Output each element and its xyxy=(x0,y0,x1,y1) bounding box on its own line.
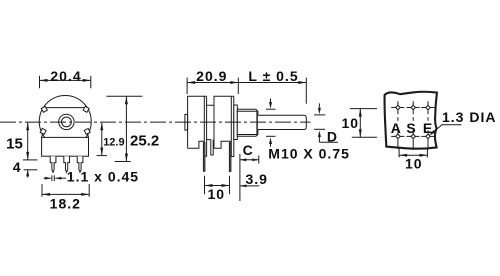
svg-text:D: D xyxy=(327,129,338,145)
body taper left xyxy=(41,134,44,138)
shaft bushing ring (outer) xyxy=(59,114,74,129)
PCB hole column A xyxy=(391,101,404,149)
front view chord line xyxy=(46,107,85,109)
1.3 DIA leader xyxy=(431,125,462,134)
notch upper-right xyxy=(83,106,89,112)
notch lower-right xyxy=(84,128,90,134)
dimension 20.9 extension lines xyxy=(186,78,188,94)
svg-text:15: 15 xyxy=(6,136,23,153)
dimension 4 lower arrow xyxy=(27,170,29,178)
svg-text:10: 10 xyxy=(405,156,423,172)
gang 1 long pin xyxy=(203,142,205,171)
dimension 12.9 vertical xyxy=(101,123,103,156)
dimension 20.9 line xyxy=(187,82,238,84)
svg-text:10: 10 xyxy=(342,115,360,131)
svg-text:1.3 DIA: 1.3 DIA xyxy=(442,109,496,125)
mounting face plate xyxy=(234,105,238,140)
front pin 2 xyxy=(64,156,70,172)
svg-text:C: C xyxy=(243,142,254,158)
dimension 18.2 line xyxy=(42,193,89,195)
dimension 3.9 line xyxy=(240,185,259,187)
svg-text:25.2: 25.2 xyxy=(130,133,159,150)
svg-text:20.9: 20.9 xyxy=(196,68,227,84)
shaft xyxy=(258,115,306,129)
dimension 1.1 x 0.45 arrows and ticks xyxy=(44,177,51,179)
svg-text:18.2: 18.2 xyxy=(50,196,81,212)
svg-text:E: E xyxy=(423,120,433,136)
body taper right xyxy=(87,134,90,138)
svg-text:10: 10 xyxy=(208,186,226,202)
threaded bushing xyxy=(237,109,258,136)
gang 2 long pin xyxy=(229,142,231,172)
thin tab under connector xyxy=(211,140,213,155)
front pin 3 xyxy=(77,156,83,172)
side view gang 2 body xyxy=(214,96,234,148)
horizontal center line through both views xyxy=(0,121,311,123)
PCB hole column S xyxy=(407,101,420,150)
M10 thread callout bottom arrow xyxy=(266,135,276,137)
bushing thread line bottom xyxy=(237,134,257,136)
notch lower-left xyxy=(40,128,46,134)
D callout top arrow xyxy=(318,103,320,107)
svg-text:12.9: 12.9 xyxy=(103,137,124,149)
dimension 10 rows line xyxy=(359,109,361,138)
svg-text:4: 4 xyxy=(13,159,22,175)
dimension 10 patch extension lines xyxy=(398,148,400,158)
dimension 20.4 extension lines xyxy=(39,76,41,89)
dimension 10 patch line xyxy=(399,154,427,156)
side view gang 1 body xyxy=(188,96,207,148)
svg-text:L ± 0.5: L ± 0.5 xyxy=(248,68,298,84)
front body rectangle xyxy=(42,137,89,156)
dimension 3.9 / C shared extension line xyxy=(239,154,241,201)
dimension 25.2 vertical xyxy=(125,96,127,161)
dimension L +/- 0.5 line xyxy=(305,78,307,104)
svg-text:S: S xyxy=(406,120,416,136)
dimension 15/4 shared tick xyxy=(23,159,38,161)
side view rear tab xyxy=(185,114,188,130)
dimension 10 pins line xyxy=(205,185,230,187)
dimension 20.4 line xyxy=(40,79,91,81)
gang 2 wafer xyxy=(231,96,234,156)
dimension C right bar xyxy=(258,155,260,163)
svg-text:A: A xyxy=(391,120,402,136)
connector between gangs xyxy=(207,105,214,139)
dimension 4 lower tick xyxy=(24,169,38,171)
D callout bottom arrow xyxy=(314,128,325,130)
dimension 10 pins extension lines xyxy=(204,176,206,194)
svg-text:20.4: 20.4 xyxy=(50,68,81,84)
front pin 1 xyxy=(50,156,56,172)
PCB hole column E xyxy=(421,101,434,149)
bushing end relief line xyxy=(256,111,258,134)
dimension 10 rows ticks xyxy=(350,108,377,110)
front view body circle (clipped at body top) xyxy=(39,96,91,138)
D underline bracket xyxy=(319,141,338,143)
gang 1 wafer xyxy=(204,96,206,156)
dimension 18.2 extension lines xyxy=(41,184,43,197)
notch upper-left xyxy=(41,106,47,112)
M10 thread callout top arrow xyxy=(270,99,272,104)
dimension C line xyxy=(240,159,259,161)
bushing thread line top xyxy=(237,110,257,112)
shaft end circle (inner) xyxy=(62,117,72,127)
svg-text:3.9: 3.9 xyxy=(246,171,268,187)
svg-text:1.1 x 0.45: 1.1 x 0.45 xyxy=(67,169,139,185)
PCB patch outline xyxy=(385,92,437,149)
svg-text:M10 X 0.75: M10 X 0.75 xyxy=(268,145,350,161)
dimension 15 vertical xyxy=(27,122,29,160)
